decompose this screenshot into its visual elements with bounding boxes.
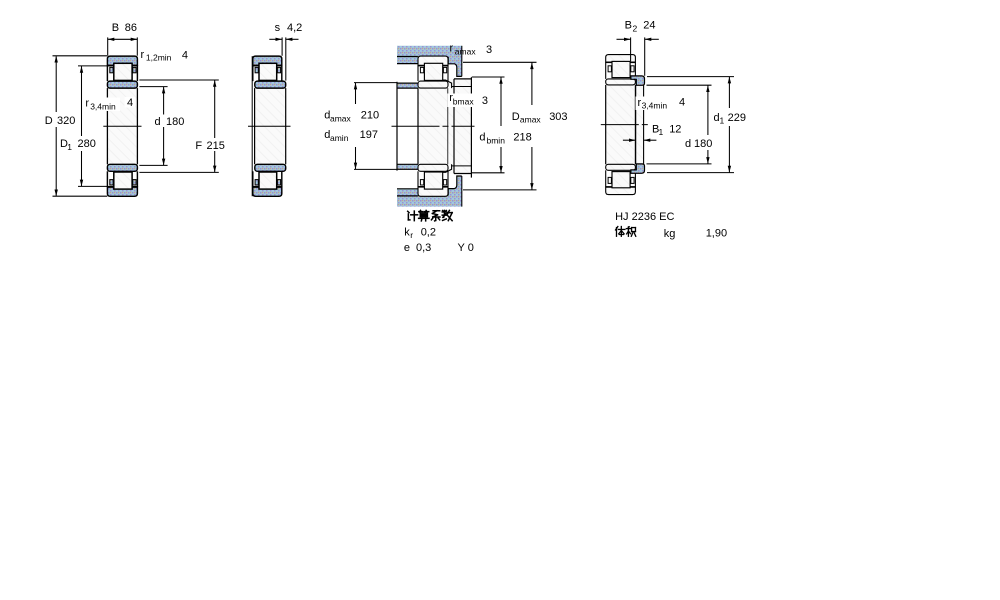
svg-text:3: 3 xyxy=(486,44,492,56)
fig2 bore column xyxy=(255,88,286,164)
fig4 designation HJ 2236 EC xyxy=(615,211,674,223)
fig4 HJ ring silhouette verticals xyxy=(636,85,644,164)
svg-text:2: 2 xyxy=(633,23,638,33)
svg-text:4: 4 xyxy=(127,97,133,109)
svg-text:280: 280 xyxy=(78,138,96,150)
fig3 inner ring protrusion chamfer top xyxy=(443,80,452,88)
svg-text:r: r xyxy=(141,49,145,61)
fig4 mass row: weight kg 1,90 xyxy=(616,227,728,240)
dimension s 4,2 xyxy=(269,22,302,81)
fig3 e 0,3 Y 0 xyxy=(404,242,474,254)
fig1 centerline xyxy=(103,125,141,127)
dimension B1 12 xyxy=(623,123,682,142)
svg-text:D: D xyxy=(512,111,520,123)
svg-text:215: 215 xyxy=(207,140,225,152)
fig4 bearing bottom block (unshaded) xyxy=(606,164,636,194)
svg-text:r: r xyxy=(85,97,89,109)
fig3 housing bottom (blue) xyxy=(397,176,462,207)
svg-text:kg: kg xyxy=(664,228,676,240)
fig2 bearing top block xyxy=(253,56,286,88)
svg-text:r: r xyxy=(410,230,413,240)
fig3 centerline (dash-dot) xyxy=(392,125,475,127)
fig2 bearing bottom block xyxy=(253,164,286,196)
dimension d_bmin 218 xyxy=(472,77,533,173)
dimension d 180 (fig4) xyxy=(647,85,715,164)
dimension B2 24 xyxy=(617,20,659,76)
svg-text:180: 180 xyxy=(166,116,184,128)
fig3 shaft bore column (hatched) xyxy=(418,88,448,164)
dimension d1 229 (fig4) xyxy=(647,77,750,173)
svg-text:86: 86 xyxy=(125,22,137,34)
svg-text:0,3: 0,3 xyxy=(416,242,431,254)
fig3 caption: calculation factors (Chinese, bold) xyxy=(408,210,452,220)
fig4 HJ angle ring top (blue) xyxy=(631,76,645,85)
label r_bmax 3 xyxy=(448,92,490,107)
fig3 bearing bottom block (unshaded) xyxy=(418,164,448,196)
svg-text:d: d xyxy=(155,116,161,128)
fig4 centerline xyxy=(601,124,649,126)
fig3 shaft surface silhouette right xyxy=(452,87,471,166)
svg-text:bmax: bmax xyxy=(453,97,475,107)
svg-text:amax: amax xyxy=(520,115,542,125)
fig3 housing top (blue) xyxy=(397,46,462,77)
svg-text:24: 24 xyxy=(643,20,655,32)
svg-text:B: B xyxy=(112,22,119,34)
fig1 bore column xyxy=(107,88,137,164)
svg-text:F: F xyxy=(195,140,202,152)
svg-text:3,4min: 3,4min xyxy=(90,102,116,112)
svg-text:D: D xyxy=(45,115,53,127)
svg-text:bmin: bmin xyxy=(487,136,506,146)
svg-text:B: B xyxy=(625,20,632,32)
fig2 outer ring face silhouette xyxy=(251,56,253,196)
svg-text:1: 1 xyxy=(720,116,725,126)
fig2 centerline xyxy=(248,125,291,127)
svg-text:0,2: 0,2 xyxy=(421,227,436,239)
fig4 label r3,4min 4 xyxy=(636,97,688,111)
svg-text:e: e xyxy=(404,242,410,254)
label r3,4min 4 xyxy=(84,97,135,112)
svg-text:4: 4 xyxy=(182,50,188,62)
svg-text:180: 180 xyxy=(694,138,712,150)
svg-text:218: 218 xyxy=(513,132,531,144)
fig4 bearing top block (unshaded) xyxy=(606,55,636,85)
dimension d_amax 210 / d_amin 197 xyxy=(322,83,397,170)
dimension D 320 xyxy=(43,56,107,196)
dimension D_amax 303 xyxy=(463,62,568,190)
svg-text:amin: amin xyxy=(330,133,349,143)
fig1 outer ring / roller / cage / inner ring, top xyxy=(107,56,137,88)
fig3 bearing top block (unshaded) xyxy=(418,56,448,88)
dimension B 86 xyxy=(108,22,138,56)
svg-text:1: 1 xyxy=(659,127,664,137)
svg-text:1,2min: 1,2min xyxy=(146,53,172,63)
svg-text:r: r xyxy=(450,43,454,55)
svg-text:Y 0: Y 0 xyxy=(458,242,474,254)
svg-text:320: 320 xyxy=(57,115,75,127)
dimension D1 280 xyxy=(57,66,107,186)
fig3 inner ring protrusion chamfer bottom xyxy=(443,164,452,172)
svg-text:4,2: 4,2 xyxy=(287,22,302,34)
svg-text:d: d xyxy=(685,138,691,150)
fig4 HJ angle ring bottom (blue) xyxy=(631,164,645,173)
svg-text:3,4min: 3,4min xyxy=(642,100,668,110)
svg-text:s: s xyxy=(275,22,281,34)
fig3 k_r 0,2 xyxy=(404,227,436,241)
svg-text:amax: amax xyxy=(330,113,352,123)
fig3 shaft step right (hatched) xyxy=(448,79,471,174)
svg-text:HJ 2236 EC: HJ 2236 EC xyxy=(615,211,674,223)
fig4 bore column xyxy=(606,85,636,164)
svg-text:12: 12 xyxy=(669,123,681,135)
label r_amax 3 xyxy=(450,43,493,57)
label r1,2min 4 xyxy=(141,49,189,63)
svg-text:amax: amax xyxy=(455,47,477,57)
fig1 outer ring / roller / cage / inner ring, bottom xyxy=(107,164,137,196)
fig3 shaft shoulder left (blue) and face xyxy=(397,82,418,171)
dimension F 215 xyxy=(139,80,226,172)
svg-text:3: 3 xyxy=(482,95,488,107)
svg-text:210: 210 xyxy=(361,109,379,121)
dimension d 180 xyxy=(139,87,188,166)
svg-text:1: 1 xyxy=(67,142,72,152)
svg-text:229: 229 xyxy=(728,112,746,124)
svg-text:1,90: 1,90 xyxy=(706,227,727,239)
svg-text:4: 4 xyxy=(679,97,685,109)
svg-text:197: 197 xyxy=(360,129,378,141)
svg-text:d: d xyxy=(479,132,485,144)
svg-text:303: 303 xyxy=(549,111,567,123)
fig3 shaft step / HJ ring outline xyxy=(454,77,471,177)
